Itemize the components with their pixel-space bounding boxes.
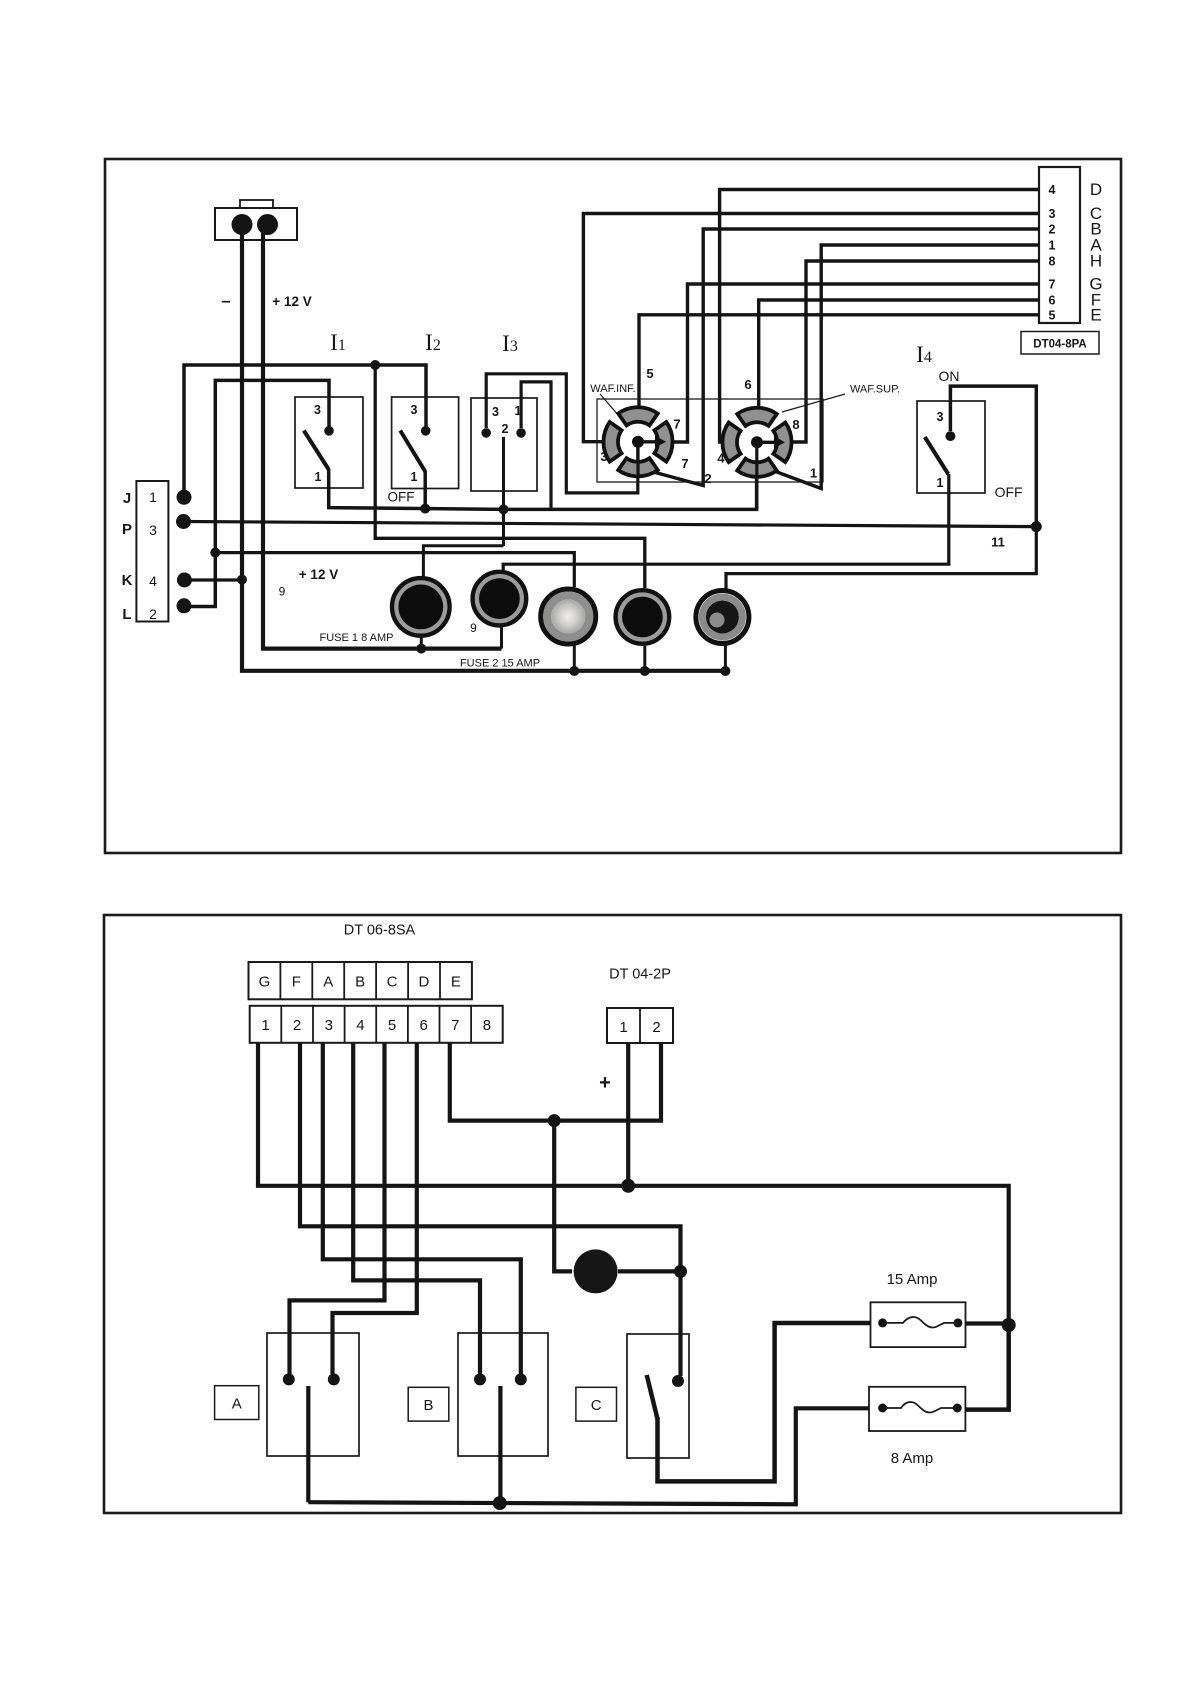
svg-text:L: L — [122, 606, 131, 623]
svg-text:8: 8 — [483, 1017, 491, 1034]
junction OFF bus / I2 — [420, 504, 430, 514]
WAF.SUP rotor stem down — [755, 442, 758, 509]
svg-text:11: 11 — [991, 535, 1005, 550]
svg-text:+ 12 V: + 12 V — [272, 294, 311, 309]
switch A left contact — [283, 1373, 295, 1385]
wire lamp2 bottom stub — [500, 627, 503, 649]
svg-text:–: – — [221, 291, 230, 310]
wire P3 bus to right side — [184, 522, 1037, 527]
svg-text:1: 1 — [411, 470, 418, 484]
wire lamp right to junction — [618, 1269, 681, 1273]
fuse 15 Amp body — [871, 1302, 966, 1347]
svg-text:3: 3 — [325, 1017, 333, 1034]
wire pin7 G to WAF.INF right contact — [671, 284, 1039, 442]
DT06-8SA number row box — [250, 1006, 503, 1043]
lamp 3 (lit) — [541, 589, 596, 644]
junction OFF bus / I3 pin2 — [499, 504, 509, 514]
wire I1 lever bottom to OFF bus and WAF.SUP rotor — [329, 469, 757, 509]
switch A body — [267, 1333, 359, 1456]
switch B body — [458, 1333, 548, 1456]
I2 lever — [400, 431, 425, 472]
svg-text:3: 3 — [492, 405, 499, 419]
DT06-8SA letter row dividers — [280, 962, 440, 999]
wire lamp 1 top feed — [423, 546, 503, 578]
switch C body — [627, 1334, 689, 1458]
svg-text:5: 5 — [1049, 308, 1056, 322]
wire battery + down to +12V bus under lamps 1-2 — [263, 233, 502, 649]
svg-text:A: A — [232, 1396, 242, 1413]
fuse 8A left terminal — [878, 1404, 887, 1413]
svg-text:ON: ON — [939, 368, 960, 384]
svg-text:DT04-8PA: DT04-8PA — [1033, 339, 1086, 351]
connector DT04-8PA body — [1039, 167, 1080, 323]
junction lamp3 ground — [569, 666, 579, 676]
svg-text:3: 3 — [149, 522, 157, 538]
svg-text:1: 1 — [1049, 239, 1056, 253]
fuse 8A right terminal — [953, 1404, 962, 1413]
svg-text:FUSE 1 8 AMP: FUSE 1 8 AMP — [320, 632, 394, 644]
svg-text:C: C — [387, 974, 398, 991]
switch B left contact — [474, 1373, 486, 1385]
svg-text:2: 2 — [149, 606, 157, 622]
svg-text:A: A — [323, 974, 333, 991]
I1 pin 3 contact — [324, 426, 334, 436]
junction bottom bus / B pole — [493, 1496, 507, 1510]
wire fuse 15A right to main bus junction — [966, 1321, 1009, 1325]
I3 pin 3 contact — [481, 428, 491, 438]
svg-text:6: 6 — [420, 1017, 428, 1034]
wire P junction down left to lamp 5 top — [726, 527, 1036, 589]
wire pin8 H to WAF.SUP right contact — [790, 261, 1040, 442]
terminal dot L2 — [177, 598, 192, 613]
connector JPKL body — [136, 481, 168, 622]
switch C contact — [672, 1375, 684, 1387]
svg-text:4: 4 — [717, 451, 725, 466]
svg-text:5: 5 — [646, 366, 653, 381]
svg-text:4: 4 — [1049, 183, 1056, 197]
I4 lever — [925, 437, 948, 474]
junction lamp1 bottom on +12V bus — [416, 644, 426, 654]
wire lamp4 bottom stub — [643, 646, 646, 671]
svg-text:4: 4 — [356, 1017, 364, 1034]
lamp 1 — [392, 578, 449, 635]
indicator lamp (fig2) — [574, 1249, 618, 1293]
svg-text:E: E — [451, 974, 461, 991]
wire lamp3 bottom stub — [573, 644, 576, 671]
svg-text:P: P — [122, 521, 132, 538]
wire pin1 A to WAF.SUP bottom contact — [764, 245, 1040, 489]
svg-text:8 Amp: 8 Amp — [891, 1450, 934, 1467]
svg-text:F: F — [292, 974, 301, 991]
battery connector body — [215, 208, 297, 240]
figure 1 border frame — [105, 159, 1121, 853]
I4 pin 3 contact — [945, 431, 955, 441]
junction lamp right — [674, 1265, 687, 1278]
wire I3 pin1 up right down to OFF bus (WAF.SUP) — [521, 382, 551, 508]
wire DT06 pin2 down right to switch C contact — [300, 1043, 681, 1376]
svg-text:3: 3 — [411, 403, 418, 417]
svg-text:3: 3 — [600, 449, 607, 464]
svg-text:7: 7 — [1049, 278, 1056, 292]
svg-text:B: B — [355, 974, 365, 991]
svg-text:7: 7 — [681, 456, 688, 471]
bottom bus A and B poles to 8 Amp fuse — [308, 1408, 869, 1504]
junction J-bus / lamp4 branch — [370, 360, 380, 370]
lamp 4 — [616, 590, 669, 643]
junction main bus / 15A fuse — [1002, 1318, 1016, 1332]
wire DT06 pin4 down right to switch B left contact — [353, 1043, 480, 1374]
junction pin7 bus / lamp feed — [548, 1114, 561, 1127]
figure 2 border frame — [104, 915, 1121, 1513]
svg-text:D: D — [418, 974, 429, 991]
wire junction down to 8A fuse right — [966, 1325, 1009, 1410]
svg-text:2: 2 — [652, 1019, 660, 1036]
wire L2 right, up, right to I1 pin3 — [184, 380, 329, 606]
terminal dot J1 — [177, 490, 192, 505]
wire I3 pin3 up right down to WAF.INF rotor stem — [486, 374, 638, 493]
svg-text:2: 2 — [502, 422, 509, 436]
terminal dot P3 — [176, 514, 191, 529]
switch B right contact — [515, 1373, 527, 1385]
svg-text:WAF.SUP.: WAF.SUP. — [850, 384, 900, 396]
callout line WAF.INF — [600, 394, 619, 416]
svg-text:1: 1 — [149, 489, 157, 505]
svg-text:8: 8 — [792, 417, 799, 432]
switch I3 body — [471, 398, 537, 491]
svg-text:1: 1 — [261, 1017, 269, 1034]
rotary wafer switch WAF.INF — [603, 407, 672, 476]
wire DT06 pin1 down to main bus — [258, 1043, 1009, 1325]
svg-text:3: 3 — [937, 410, 944, 424]
junction P bus right end — [1031, 521, 1042, 532]
wire DT06 pin3 down right to switch B right contact — [323, 1043, 521, 1374]
fuse 15A left terminal — [878, 1318, 887, 1327]
wire lamp2 top to I4 lever — [503, 474, 949, 571]
switch C lever — [647, 1375, 658, 1419]
wire I2 lever bottom to OFF bus — [423, 471, 427, 509]
svg-text:7: 7 — [673, 417, 680, 432]
svg-text:OFF: OFF — [388, 490, 415, 505]
wire DT06 pin6 down left to switch A right contact — [333, 1043, 417, 1374]
svg-text:3: 3 — [314, 403, 321, 417]
wire lamp1 bottom stub — [420, 637, 423, 649]
svg-text:5: 5 — [388, 1017, 396, 1034]
wire DT06 pin5 down left to switch A left contact — [290, 1043, 385, 1374]
wire DT06 pin7 down right to DT04-2P pin2 — [450, 1043, 661, 1121]
svg-text:9: 9 — [279, 585, 286, 599]
DT04-2P box — [607, 1008, 673, 1043]
junction L-wire / lamp3 branch — [210, 548, 220, 558]
wire lamp5 bottom stub — [724, 644, 727, 671]
DT04-2P divider — [639, 1008, 641, 1043]
switch A pole down to bottom bus — [306, 1386, 310, 1502]
wire pin3 C to WAF.INF left contact — [583, 214, 1039, 442]
wafer switches enclosure — [597, 399, 823, 482]
I1 lever — [304, 431, 329, 470]
svg-text:9: 9 — [470, 621, 477, 635]
I3 pin 1 contact — [516, 428, 526, 438]
svg-text:6: 6 — [1049, 294, 1056, 308]
wire J1 up and right to I2 pin3 — [184, 365, 426, 497]
svg-text:B: B — [423, 1397, 433, 1414]
wire junction right to lamp 3 top — [215, 553, 574, 587]
wire I3 pin2 down to lamp1 branch — [502, 437, 505, 546]
svg-text:4: 4 — [149, 573, 157, 589]
switch I1 body — [295, 397, 363, 488]
switch C label box — [576, 1387, 617, 1421]
fuse 15A element — [883, 1317, 958, 1328]
callout line WAF.SUP — [782, 394, 845, 412]
switch B pole down to bottom bus — [498, 1386, 502, 1503]
svg-text:+: + — [599, 1072, 611, 1094]
switch A right contact — [328, 1373, 340, 1385]
fuse 15A right terminal — [953, 1318, 962, 1327]
svg-text:15 Amp: 15 Amp — [887, 1271, 938, 1288]
junction bus / DT04-2P pin1 — [621, 1179, 635, 1193]
battery terminal - post — [232, 214, 253, 235]
svg-text:2: 2 — [1049, 223, 1056, 237]
svg-text:2: 2 — [704, 471, 711, 486]
switch I2 body — [392, 397, 459, 489]
svg-text:6: 6 — [744, 377, 751, 392]
svg-text:K: K — [122, 572, 133, 589]
svg-text:C: C — [591, 1397, 602, 1414]
lamp 2 — [473, 572, 526, 625]
switch I4 body — [917, 401, 985, 493]
junction lamp5 ground — [720, 666, 730, 676]
svg-text:DT 04-2P: DT 04-2P — [609, 967, 671, 983]
WAF.INF rotor stem down — [636, 442, 639, 476]
wire junction down, right to lamp 4 top — [375, 365, 645, 588]
DT06-8SA letter row box — [249, 962, 472, 999]
svg-text:WAF.INF.: WAF.INF. — [590, 383, 635, 395]
battery terminal + post — [257, 214, 278, 235]
switch B label box — [408, 1387, 449, 1421]
wire switch C lever to 15 Amp fuse — [658, 1323, 872, 1481]
junction lamp4 ground — [640, 666, 650, 676]
label box DT04-8PA — [1021, 332, 1099, 355]
DT06-8SA number row dividers — [281, 1006, 471, 1043]
svg-text:1: 1 — [937, 476, 944, 490]
terminal dot K4 — [177, 573, 192, 588]
svg-text:1: 1 — [315, 470, 322, 484]
wire pin6 F to WAF.SUP top contact — [759, 300, 1039, 410]
fuse 8 Amp body — [869, 1387, 965, 1431]
rotary wafer switch WAF.SUP — [722, 408, 791, 477]
wire pin4 D to WAF.SUP left contact — [720, 190, 1039, 443]
wire K4 right to battery minus wire — [184, 578, 242, 581]
wire I4 pin3 up right down to P bus junction — [950, 386, 1036, 526]
svg-text:FUSE 2 15 AMP: FUSE 2 15 AMP — [460, 658, 540, 670]
switch A label box — [215, 1386, 259, 1420]
wire pin2 B to WAF.INF bottom contact — [648, 229, 1039, 486]
fuse 8A element — [883, 1402, 958, 1413]
svg-text:+ 12 V: + 12 V — [299, 567, 338, 582]
wire battery - down to ground bus under lamps — [242, 233, 725, 671]
lamp 5 — [696, 591, 749, 644]
svg-text:1: 1 — [810, 466, 817, 481]
svg-text:1: 1 — [619, 1019, 627, 1036]
wire junction down to lamp left — [554, 1121, 572, 1272]
svg-text:7: 7 — [451, 1017, 459, 1034]
svg-text:J: J — [123, 490, 131, 507]
svg-text:3: 3 — [1049, 207, 1056, 221]
svg-text:E: E — [1090, 305, 1101, 324]
svg-text:DT 06-8SA: DT 06-8SA — [344, 923, 416, 939]
svg-text:D: D — [1090, 180, 1102, 199]
wire pin5 E to WAF.INF top contact — [639, 315, 1039, 409]
svg-text:8: 8 — [1049, 255, 1056, 269]
wire DT04-2P pin1 down — [626, 1043, 630, 1186]
svg-text:2: 2 — [293, 1017, 301, 1034]
battery connector tab — [240, 200, 273, 208]
I2 pin 3 contact — [421, 426, 431, 436]
svg-text:H: H — [1090, 252, 1102, 271]
svg-text:G: G — [259, 974, 271, 991]
junction K4 on battery minus — [237, 575, 247, 585]
svg-text:OFF: OFF — [995, 484, 1023, 500]
